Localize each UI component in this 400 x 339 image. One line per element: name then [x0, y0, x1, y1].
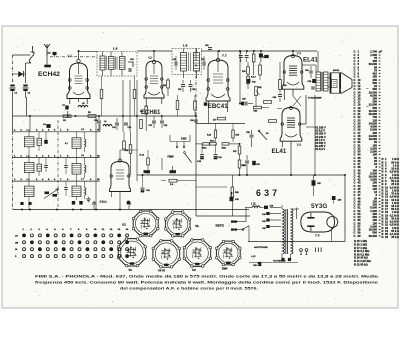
- ground symbol: [93, 205, 95, 210]
- socket diagram EM4: [216, 241, 240, 265]
- svg-text:EM4.: EM4.: [100, 200, 108, 204]
- wire: [130, 132, 132, 145]
- wire: [249, 262, 298, 264]
- wire: [12, 55, 14, 83]
- resistor R16v: [247, 67, 250, 75]
- capacitor C43: [230, 197, 234, 201]
- wire: [215, 124, 217, 131]
- capacitor C4a blob: [44, 140, 48, 144]
- svg-text:V.5: V.5: [297, 143, 302, 147]
- resistor R22v: [238, 160, 241, 168]
- socket diagram V3: [118, 239, 145, 266]
- terminal marks: [315, 248, 317, 253]
- svg-text:Ω: Ω: [397, 236, 399, 239]
- svg-text:0,05: 0,05: [338, 200, 342, 202]
- wire: [270, 207, 281, 209]
- capacitor C29: [245, 160, 249, 162]
- svg-text:V.3: V.3: [222, 54, 227, 58]
- socket diagram V6: [184, 240, 211, 267]
- resistor R25h: [264, 101, 272, 104]
- wire: [239, 51, 241, 104]
- svg-text:C22: C22: [201, 59, 204, 61]
- svg-text:ECH81: ECH81: [141, 110, 161, 116]
- choke L11: [252, 206, 260, 208]
- wire: [290, 160, 292, 175]
- capacitor ground blob: [28, 202, 31, 205]
- capacitor C38: [258, 262, 262, 266]
- capacitor ground blob row3: [72, 201, 75, 205]
- svg-text:R.13: R.13: [207, 135, 211, 137]
- wire: [119, 150, 121, 161]
- terminal blob T1b: [288, 258, 291, 261]
- capacitor ground blob: [20, 202, 23, 205]
- resistor R24: [254, 106, 262, 109]
- ground symbol: [128, 205, 130, 210]
- coil L4a: [103, 124, 112, 126]
- svg-text:V.4: V.4: [297, 52, 302, 56]
- resistor R18: [203, 143, 210, 145]
- coil L5 secondary: [72, 138, 81, 149]
- resistor R17: [238, 146, 241, 154]
- IF transformer L6 box: [97, 52, 137, 77]
- mains plug: [231, 221, 237, 223]
- capacitor C34 electrolytic: [312, 79, 316, 83]
- svg-text:V.6: V.6: [315, 234, 320, 238]
- resistor R15v: [232, 130, 234, 138]
- capacitor C36: [309, 70, 313, 72]
- loudspeaker: [330, 73, 332, 94]
- svg-text:L.12: L.12: [251, 256, 256, 258]
- svg-text:10.: 10.: [94, 229, 97, 231]
- black cap C33: [264, 55, 269, 58]
- resistor R11b: [194, 101, 197, 110]
- capacitor C35b: [311, 86, 315, 88]
- svg-text:~: ~: [228, 224, 230, 228]
- capacitor C44: [266, 212, 269, 215]
- wire: [145, 114, 147, 131]
- svg-text:frequenza 450 kc/s. Consumo 80: frequenza 450 kc/s. Consumo 80 watt. Pot…: [35, 281, 378, 285]
- wire volume rail: [196, 123, 245, 125]
- resistor R12: [123, 141, 126, 149]
- wire AVC dash-dot line: [50, 56, 97, 58]
- ground symbol: [88, 197, 90, 199]
- svg-text:C21: C21: [178, 89, 181, 91]
- wire HT rail top: [79, 50, 98, 52]
- capacitor C53: [246, 51, 248, 54]
- svg-text:637: 637: [256, 188, 280, 198]
- svg-text:V2: V2: [148, 56, 152, 60]
- tube V1 inner electrodes: [75, 75, 83, 77]
- capacitor C28a: [214, 154, 218, 156]
- capacitor C10: [97, 120, 101, 122]
- wire: [245, 208, 247, 222]
- capacitor C8a: [44, 165, 48, 167]
- capacitor C7: [65, 106, 68, 110]
- wire band rail 1: [13, 131, 101, 133]
- svg-text:R.A.7: R.A.7: [251, 76, 256, 79]
- wire: [328, 77, 332, 79]
- capacitor C4b: [46, 124, 50, 128]
- wire: [196, 215, 250, 217]
- svg-text:L 11: L 11: [251, 202, 256, 205]
- tube V4 inner electrodes: [289, 65, 297, 67]
- ground pad: [144, 170, 151, 173]
- capacitor C16: [141, 187, 145, 189]
- coil L1: [25, 137, 35, 147]
- svg-text:AUTOTRASF.: AUTOTRASF.: [254, 246, 268, 249]
- svg-text:C: C: [354, 234, 356, 238]
- capacitor C26 coupling: [244, 102, 246, 106]
- resistor R21 potentiometer: [255, 87, 258, 96]
- resistor R9: [145, 106, 148, 114]
- wire band rail 2: [13, 157, 101, 159]
- capacitor C23: [189, 84, 193, 86]
- svg-text:12.: 12.: [110, 229, 113, 231]
- capacitor C51: [208, 47, 212, 49]
- svg-text:~: ~: [366, 86, 369, 91]
- switch S2 phono: [170, 141, 190, 143]
- resistor R2: [63, 115, 71, 118]
- svg-text:R: R: [382, 235, 384, 239]
- svg-text:L 8: L 8: [183, 44, 188, 48]
- tube V5 inner electrodes: [287, 117, 295, 119]
- capacitor C15: [124, 122, 128, 124]
- resistor R14c: [147, 158, 150, 165]
- resistor R22: [252, 54, 255, 62]
- svg-text:RETE: RETE: [216, 224, 224, 228]
- IF transformer L8 windings: [181, 53, 187, 72]
- svg-text:14.: 14.: [126, 228, 129, 231]
- resistor R15 AF: [169, 179, 177, 182]
- wire ground rail left: [13, 209, 250, 211]
- resistor R19: [210, 143, 217, 145]
- wire crossover: [293, 96, 301, 106]
- svg-text:EM4: EM4: [222, 267, 228, 271]
- wire: [302, 64, 316, 66]
- coil L7 spiral: [85, 188, 86, 196]
- resistor R18v: [259, 65, 262, 75]
- capacitor C52: [240, 51, 242, 54]
- capacitor C21: [181, 84, 185, 86]
- svg-text:V.1: V.1: [122, 223, 126, 227]
- capacitor C23 ground blob: [127, 201, 131, 205]
- wire: [196, 143, 203, 145]
- svg-text:FIMI S.A. - PHONOLA - Mod. 637: FIMI S.A. - PHONOLA - Mod. 637, Onde med…: [35, 275, 379, 279]
- resistor R23: [279, 80, 282, 90]
- resistor R3: [100, 90, 103, 99]
- svg-text:EBC41: EBC41: [208, 103, 229, 110]
- svg-text:26: 26: [385, 235, 388, 239]
- wire: [281, 205, 283, 209]
- coil L5 oscillator: [78, 105, 88, 107]
- svg-text:EL41: EL41: [303, 57, 318, 64]
- wire ground rail mid: [137, 174, 345, 176]
- wire: [78, 51, 80, 59]
- svg-text:C19: C19: [173, 59, 176, 61]
- svg-text:EL41: EL41: [272, 148, 287, 155]
- tube V6 5Y3G envelope: [301, 212, 335, 232]
- band switch shaft dash-dot: [57, 120, 59, 208]
- resistor R5: [88, 115, 96, 118]
- wire: [292, 51, 294, 55]
- svg-text:4,7: 4,7: [65, 142, 68, 145]
- resistor R13: [129, 145, 132, 154]
- resistor R14b: [218, 117, 226, 120]
- capacitor C39 electrolytic: [312, 180, 316, 186]
- socket diagram V4 V5: [153, 240, 180, 267]
- coil L7: [72, 186, 81, 197]
- coil L4: [25, 186, 35, 197]
- band switch wafer pads: [45, 192, 50, 195]
- power transformer T1: [283, 209, 285, 254]
- svg-text:V3: V3: [129, 268, 133, 272]
- capacitor C5: [53, 52, 57, 55]
- svg-text:OM: OM: [15, 242, 18, 244]
- capacitor C30 electrolytic: [252, 161, 256, 165]
- wire: [12, 132, 14, 210]
- coil L6 spiral: [85, 165, 86, 173]
- capacitor C17: [152, 120, 156, 122]
- svg-text:C.26: C.26: [197, 161, 201, 163]
- tube EM4 inner electrodes: [116, 169, 124, 171]
- band switch arrow: [44, 189, 59, 199]
- capacitor C42: [266, 225, 269, 228]
- tube V1 ECH42 envelope: [67, 63, 90, 99]
- wire: [196, 186, 227, 188]
- antenna ground bar: [44, 65, 51, 68]
- wire: [279, 62, 281, 80]
- mains terminal dots: [300, 249, 303, 252]
- svg-text:10.: 10.: [97, 179, 100, 181]
- scan speckle noise: [7, 31, 397, 306]
- trimmer C22: [202, 61, 204, 66]
- capacitor C24: [194, 119, 198, 121]
- capacitor C40: [264, 206, 268, 209]
- coil L5 spiral: [85, 139, 86, 147]
- resistor R20: [222, 143, 229, 145]
- ground pad: [170, 170, 177, 173]
- svg-text:60.000: 60.000: [369, 234, 378, 238]
- svg-text:R 22 50 kΩ: R 22 50 kΩ: [354, 262, 369, 266]
- svg-text:Vb 6,3 V: Vb 6,3 V: [315, 147, 325, 151]
- resistor R27h: [269, 120, 277, 123]
- capacitor C41: [266, 219, 269, 222]
- svg-text:ECH42: ECH42: [38, 71, 60, 78]
- svg-text:1413: 1413: [181, 138, 187, 141]
- svg-text:L 6: L 6: [113, 47, 118, 51]
- trimmer C12: [128, 62, 133, 67]
- svg-text:V 1: V 1: [68, 54, 73, 58]
- antenna symbol A2: [44, 44, 50, 56]
- capacitor C35: [278, 94, 282, 96]
- wire: [217, 51, 219, 58]
- capacitor C27a: [200, 154, 204, 156]
- resistor R6: [133, 90, 136, 99]
- tube V6 inner electrodes: [307, 217, 314, 219]
- switch S3 tone: [259, 131, 267, 140]
- svg-text:M.F.8L: M.F.8L: [333, 70, 340, 72]
- capacitor C18: [160, 120, 164, 122]
- wire: [290, 141, 292, 160]
- trimmer C3: [37, 138, 42, 145]
- tube V3 EBC41 envelope: [206, 60, 230, 101]
- trimmer C6: [37, 164, 42, 171]
- terminal blob T1a: [281, 258, 284, 261]
- capacitor C34a electrolytic: [247, 79, 251, 83]
- wire mid rail: [13, 115, 197, 117]
- svg-text:F2M3: F2M3: [168, 156, 175, 159]
- capacitor ground blob row3b: [79, 201, 82, 205]
- wire: [239, 144, 241, 146]
- capacitor C28: [250, 134, 254, 136]
- coil L2: [25, 163, 35, 173]
- tube V6 base circle: [327, 217, 338, 228]
- svg-text:60: 60: [358, 234, 361, 238]
- capacitor C13: [64, 165, 67, 167]
- capacitor C2: [23, 85, 27, 87]
- resistor R10: [176, 101, 179, 110]
- svg-text:5Y3G: 5Y3G: [311, 203, 327, 210]
- IF transformer L6 windings: [100, 56, 105, 70]
- wire: [67, 111, 69, 115]
- resistor R17v: [247, 76, 250, 84]
- wire: [331, 228, 333, 242]
- socket diagram V1: [133, 211, 158, 236]
- wire: [122, 80, 124, 132]
- resistor R11: [140, 120, 143, 129]
- trimmer C19: [174, 61, 176, 66]
- svg-text:V4 V5: V4 V5: [158, 269, 166, 273]
- IF transformer L8 box: [172, 49, 202, 75]
- antenna plug J1: [29, 46, 34, 63]
- svg-text:C23: C23: [192, 89, 195, 91]
- tube V4 EL41 envelope: [282, 56, 304, 90]
- svg-text:C.28: C.28: [218, 157, 222, 159]
- wire band rail 3: [13, 180, 101, 182]
- tube V3 inner electrodes: [213, 73, 223, 75]
- capacitor C37: [332, 196, 336, 200]
- capacitor C14: [115, 122, 119, 124]
- spark gap arrester: [19, 72, 24, 77]
- capacitor C54 electrolytic: [260, 51, 262, 53]
- capacitor C1: [10, 85, 14, 87]
- wire: [169, 135, 171, 142]
- wire: [167, 78, 169, 80]
- coil L6 secondary: [72, 164, 81, 175]
- svg-text:V2.: V2.: [195, 224, 199, 228]
- svg-text:11.: 11.: [102, 229, 105, 231]
- resistor R26: [231, 187, 234, 197]
- capacitor C16b: [64, 187, 67, 189]
- tube V2 inner electrodes: [150, 75, 158, 77]
- tube EM4 magic eye envelope: [110, 162, 131, 192]
- svg-text:13.: 13.: [118, 229, 121, 231]
- tube V2 ECH81 envelope: [144, 61, 164, 98]
- resistor R8: [167, 80, 170, 88]
- resistor R13v: [214, 130, 216, 138]
- switch S4 mains: [243, 226, 249, 230]
- tube V5 EL41 envelope: [280, 108, 302, 142]
- socket diagram V2: [165, 212, 190, 237]
- wire: [195, 48, 197, 58]
- wire: [12, 91, 14, 132]
- wire: [153, 51, 155, 60]
- output transformer T2: [316, 72, 321, 91]
- svg-text:R15: R15: [236, 135, 239, 137]
